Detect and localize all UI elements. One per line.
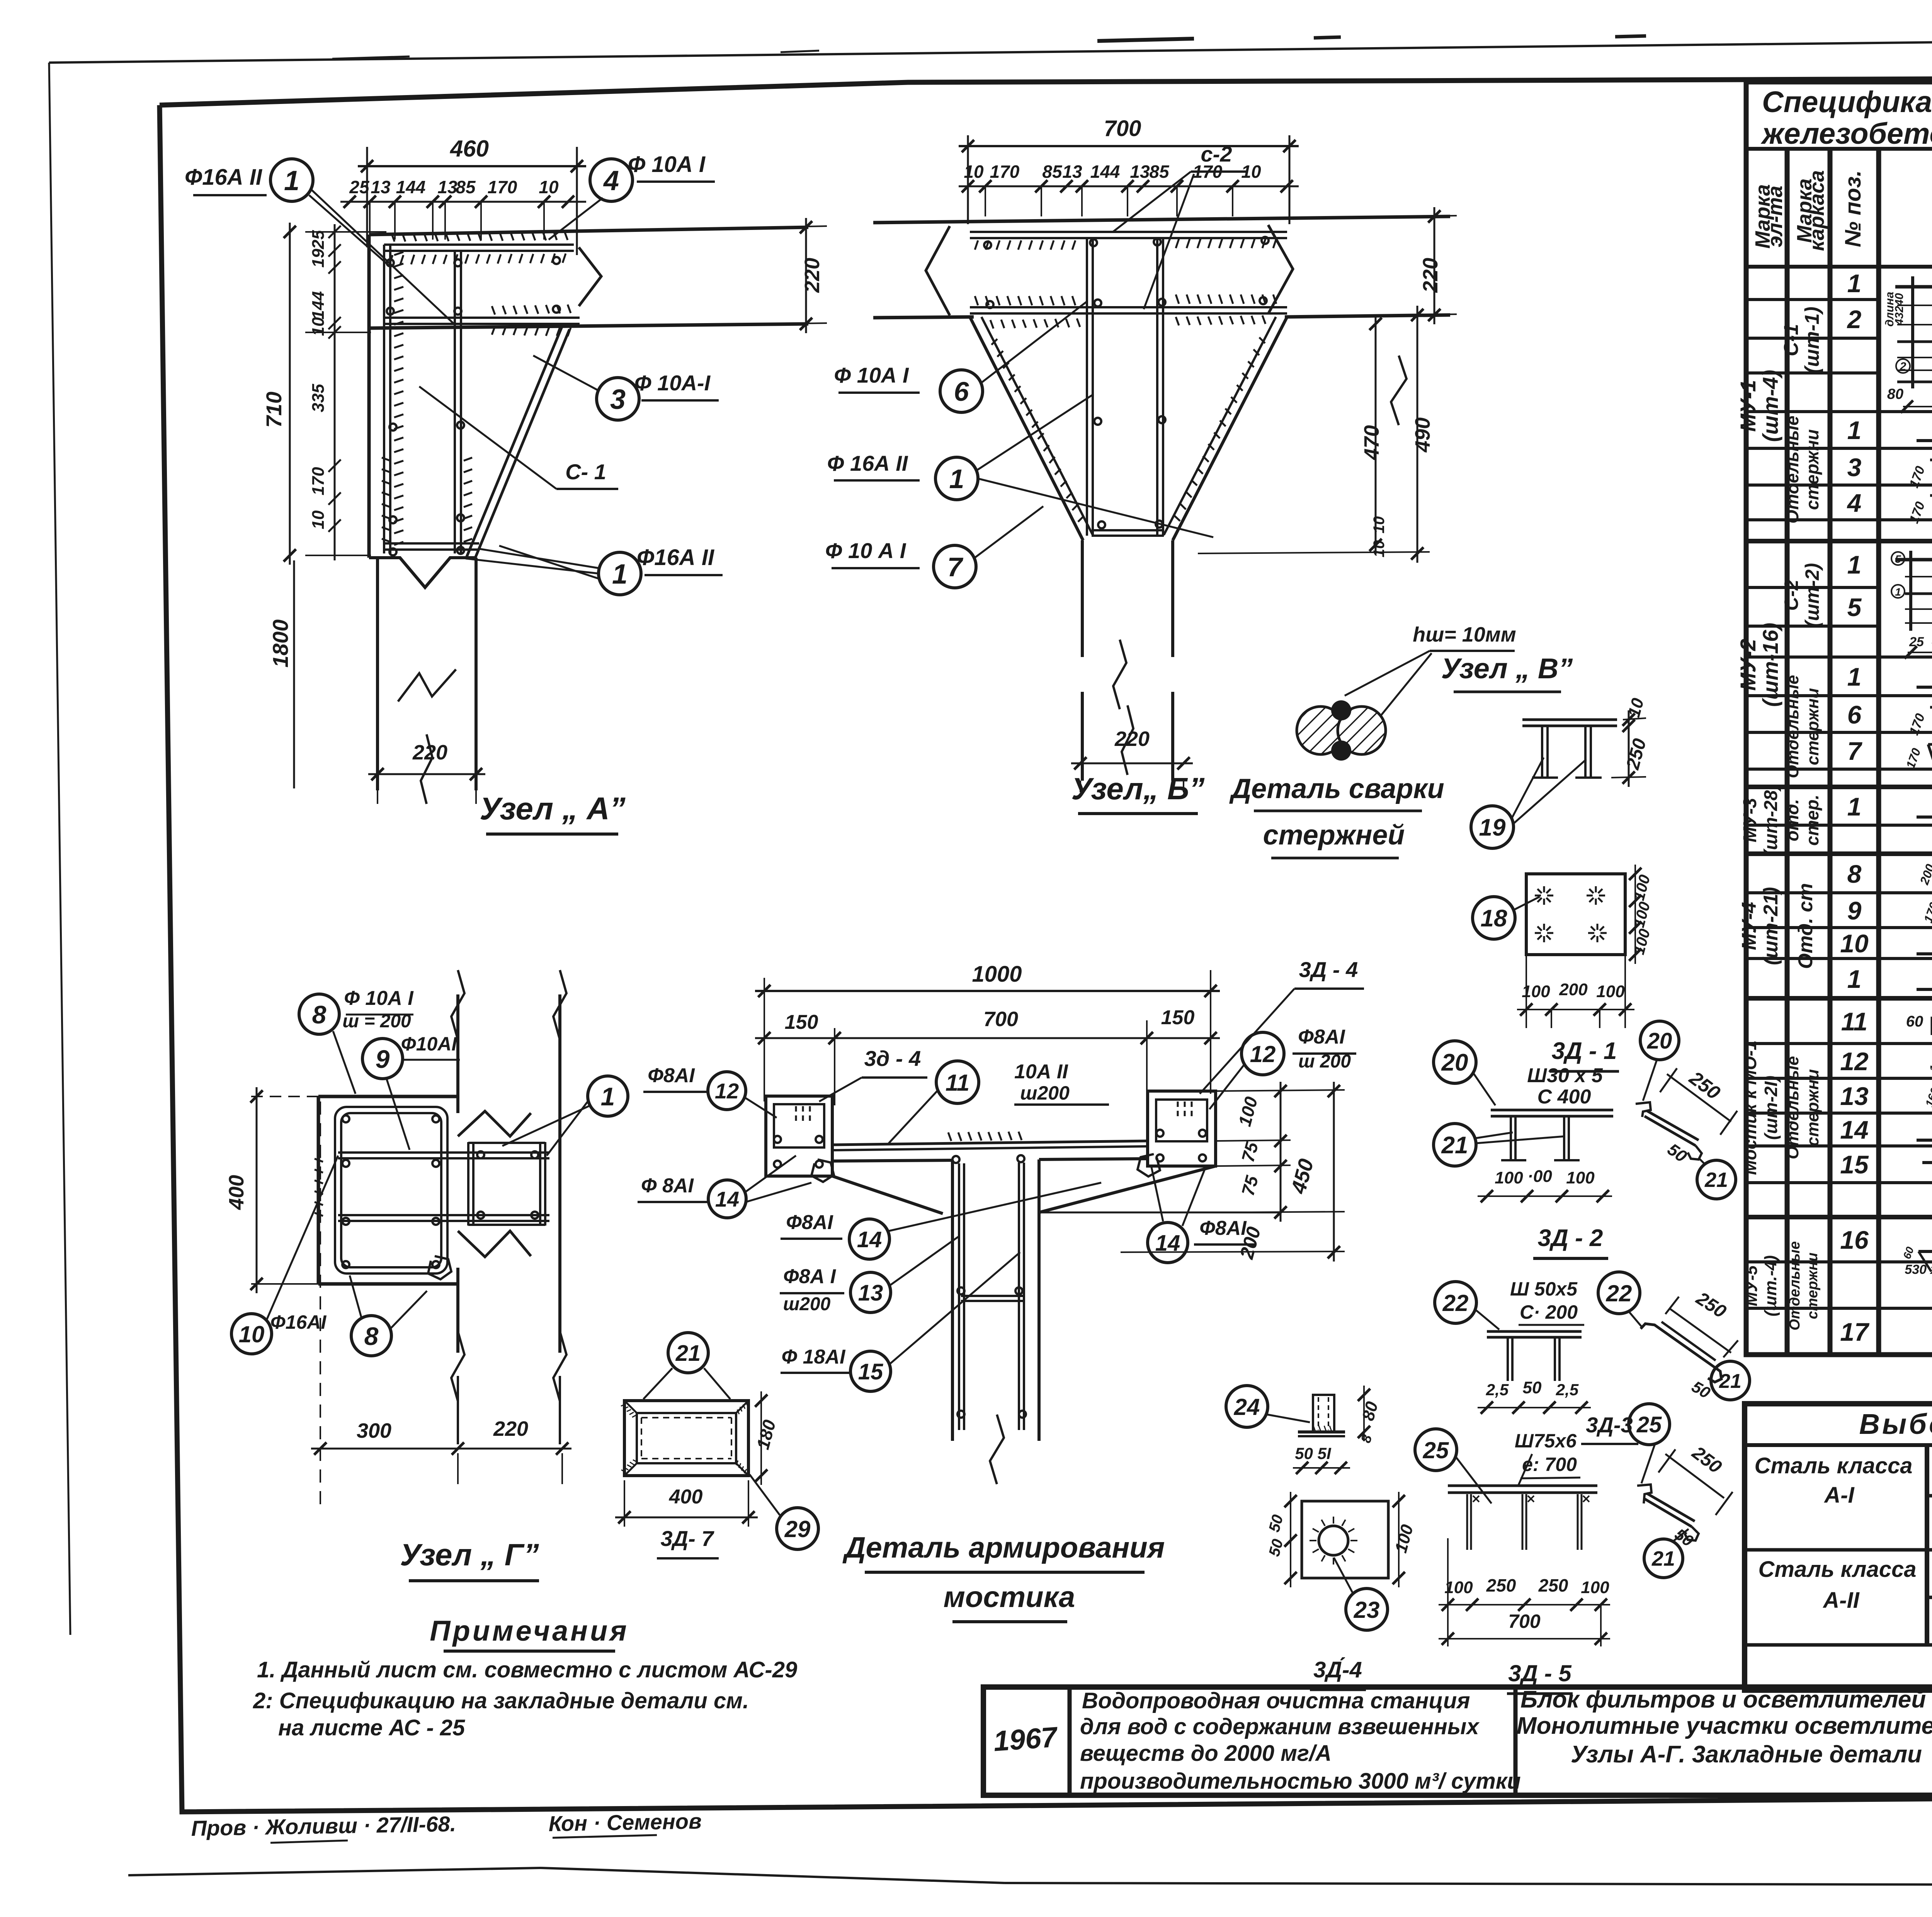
- svg-text:3Д-3: 3Д-3: [1586, 1413, 1633, 1437]
- svg-text:3Д - 1: 3Д - 1: [1552, 1038, 1617, 1064]
- svg-text:9: 9: [376, 1045, 390, 1073]
- svg-text:170: 170: [990, 162, 1020, 182]
- svg-text:Ф10АІ: Ф10АІ: [401, 1033, 457, 1055]
- svg-text:(шт.-4): (шт.-4): [1761, 1255, 1780, 1316]
- svg-text:6: 6: [1847, 700, 1862, 729]
- svg-text:1: 1: [949, 464, 964, 494]
- svg-text:3Д́-4: 3Д́-4: [1313, 1657, 1362, 1682]
- uzel V: T-bracket detail with callout 19: [1522, 718, 1617, 721]
- mostik detail: slab and web outline with rebar: [832, 1141, 1148, 1145]
- svg-text:Сталь класса: Сталь класса: [1758, 1557, 1916, 1582]
- svg-text:3д - 4: 3д - 4: [864, 1046, 921, 1071]
- svg-text:Ф16АІ: Ф16АІ: [270, 1311, 327, 1333]
- svg-text:19: 19: [309, 249, 328, 267]
- svg-text:85: 85: [1042, 162, 1063, 182]
- svg-text:700: 700: [1104, 116, 1141, 141]
- svg-text:10: 10: [1371, 540, 1388, 558]
- svg-text:470: 470: [1360, 425, 1383, 460]
- svg-text:железобетонный элемент.: железобетонный элемент.: [1760, 117, 1932, 150]
- svg-text:С-1: С-1: [1780, 324, 1803, 356]
- svg-text:1800: 1800: [268, 620, 293, 668]
- svg-text:21: 21: [1719, 1370, 1742, 1393]
- svg-text:2: Спецификацию на закла: 2: Спецификацию на закладные детали см.: [253, 1688, 749, 1713]
- svg-text:25: 25: [349, 177, 370, 197]
- svg-text:3Д- 7: 3Д- 7: [661, 1526, 715, 1551]
- svg-text:2,5: 2,5: [1556, 1381, 1579, 1399]
- svg-text:·00: ·00: [1527, 1167, 1552, 1186]
- svg-text:85: 85: [456, 177, 476, 197]
- svg-text:веществ до 2000 мг/А: веществ до 2000 мг/А: [1080, 1741, 1332, 1766]
- svg-text:80: 80: [1887, 386, 1903, 402]
- svg-text:2: 2: [1847, 305, 1862, 334]
- svg-text:13: 13: [1840, 1082, 1868, 1110]
- uzel B: bond hatching: [975, 240, 978, 250]
- svg-text:220: 220: [1419, 258, 1442, 293]
- svg-text:250: 250: [1486, 1575, 1516, 1595]
- uzel A: bond hatching: [389, 255, 393, 264]
- svg-text:25: 25: [1636, 1412, 1662, 1437]
- svg-text:hш= 10мм: hш= 10мм: [1413, 623, 1516, 646]
- svg-text:17: 17: [1840, 1318, 1870, 1346]
- svg-text:100: 100: [1581, 1578, 1609, 1597]
- uzel A: concrete outline and column: [369, 227, 808, 235]
- svg-text:Узлы А-Г. 3акладные дет: Узлы А-Г. 3акладные детали: [1571, 1741, 1922, 1768]
- svg-text:ш200: ш200: [783, 1294, 831, 1314]
- detail 22 right: bent hook bar: [1598, 1272, 1640, 1314]
- svg-text:5: 5: [1847, 593, 1862, 621]
- svg-text:9: 9: [1847, 896, 1862, 925]
- svg-text:100: 100: [1596, 982, 1625, 1001]
- svg-text:220: 220: [801, 258, 824, 293]
- svg-text:№ поз.: № поз.: [1840, 170, 1866, 247]
- svg-text:3Д - 5: 3Д - 5: [1508, 1660, 1572, 1686]
- svg-text:14: 14: [1840, 1115, 1868, 1144]
- svg-text:с-2: с-2: [1201, 142, 1232, 166]
- svg-text:Ф8АІ: Ф8АІ: [1298, 1026, 1345, 1048]
- svg-text:8: 8: [1847, 860, 1862, 888]
- bottom summary table (Выборка арматуры на лист) grid: [1745, 1404, 1932, 1690]
- svg-text:МУ-3: МУ-3: [1740, 798, 1760, 842]
- uzel B: rebar bars: [970, 231, 1287, 233]
- svg-text:144: 144: [1090, 162, 1120, 182]
- mostik detail: embedded parts ZD-4 blocks: [766, 1096, 832, 1176]
- svg-text:50: 50: [1523, 1378, 1542, 1397]
- svg-text:Ф8АІ: Ф8АІ: [1199, 1217, 1247, 1239]
- specification table grid (left part): [1746, 82, 1932, 1355]
- uzel B: transverse bar dots: [984, 242, 991, 249]
- svg-text:13: 13: [437, 177, 457, 197]
- svg-text:Ф 18АІ: Ф 18АІ: [782, 1346, 846, 1368]
- svg-text:10: 10: [309, 317, 328, 336]
- detail 22: channel bracket L50x5 e=200: [1435, 1282, 1476, 1323]
- svg-text:29: 29: [784, 1516, 811, 1542]
- svg-text:1: 1: [612, 559, 628, 590]
- svg-text:14: 14: [715, 1187, 739, 1211]
- svg-text:21: 21: [675, 1341, 701, 1366]
- svg-text:710: 710: [262, 392, 286, 427]
- svg-text:Кон · Семенов: Кон · Семенов: [548, 1809, 702, 1836]
- svg-text:144: 144: [396, 177, 426, 197]
- svg-text:МУ-1: МУ-1: [1736, 380, 1760, 432]
- svg-text:Отдельные: Отдельные: [1783, 675, 1802, 778]
- svg-text:14: 14: [857, 1227, 882, 1252]
- svg-text:700: 700: [1508, 1611, 1541, 1632]
- svg-text:МУ-5: МУ-5: [1742, 1265, 1761, 1306]
- svg-text:3Д - 2: 3Д - 2: [1538, 1225, 1603, 1251]
- svg-text:1: 1: [1847, 416, 1862, 444]
- svg-text:1967: 1967: [992, 1721, 1060, 1757]
- svg-text:400: 400: [225, 1175, 248, 1210]
- svg-text:эл-та: эл-та: [1764, 186, 1787, 247]
- svg-text:Водопроводная очистна станция: Водопроводная очистна станция: [1082, 1688, 1470, 1713]
- svg-text:Ф16А ІІ: Ф16А ІІ: [185, 165, 263, 190]
- svg-text:А-I: А-I: [1823, 1483, 1855, 1508]
- svg-text:10: 10: [309, 510, 328, 529]
- svg-text:60: 60: [1906, 1013, 1923, 1030]
- svg-text:ш200: ш200: [1020, 1082, 1070, 1104]
- svg-text:18: 18: [1481, 905, 1507, 932]
- mostik detail: bar dots: [952, 1156, 959, 1163]
- svg-text:Узел „ А”: Узел „ А”: [480, 791, 626, 826]
- svg-text:300: 300: [357, 1419, 391, 1442]
- svg-text:стержней: стержней: [1263, 820, 1405, 851]
- svg-text:13: 13: [1062, 162, 1082, 182]
- svg-text:Мостик к МО-1: Мостик к МО-1: [1740, 1040, 1760, 1175]
- svg-text:16: 16: [1840, 1226, 1869, 1254]
- svg-text:Ш30 х 5: Ш30 х 5: [1527, 1064, 1603, 1087]
- svg-text:С· 200: С· 200: [1520, 1301, 1578, 1323]
- svg-text:10: 10: [239, 1321, 265, 1347]
- svg-text:Узел „ Г”: Узел „ Г”: [400, 1537, 539, 1572]
- svg-text:1000: 1000: [972, 962, 1022, 987]
- svg-text:Блок фильтров и осветлителе: Блок фильтров и осветлителей: [1520, 1686, 1926, 1713]
- svg-text:Ш75х6: Ш75х6: [1515, 1430, 1577, 1452]
- svg-text:Ш 50х5: Ш 50х5: [1510, 1278, 1578, 1300]
- svg-text:Ф 10А І: Ф 10А І: [628, 152, 706, 177]
- svg-text:23: 23: [1354, 1597, 1380, 1623]
- detail 25: third bent hook bar with callout 21: [1629, 1404, 1670, 1445]
- svg-text:Ф8АІ: Ф8АІ: [648, 1064, 695, 1087]
- svg-text:2: 2: [1900, 360, 1906, 373]
- svg-text:150: 150: [1161, 1006, 1195, 1029]
- svg-text:3: 3: [610, 384, 626, 415]
- uzel G: bar dots: [342, 1115, 349, 1122]
- svg-text:(шт-16): (шт-16): [1758, 623, 1782, 707]
- svg-text:Отдельные: Отдельные: [1783, 1056, 1802, 1159]
- svg-text:10: 10: [964, 162, 984, 182]
- svg-text:43240: 43240: [1893, 293, 1906, 326]
- svg-text:стержни: стержни: [1803, 1069, 1822, 1146]
- svg-text:22: 22: [1606, 1280, 1632, 1306]
- uzel A: rebar cage bars: [384, 243, 574, 246]
- svg-text:1: 1: [601, 1082, 615, 1111]
- uzel A: left dimension chain 710/335/170/1800: [289, 228, 291, 560]
- svg-text:6: 6: [954, 376, 969, 407]
- svg-text:100: 100: [1495, 1168, 1523, 1187]
- svg-text:для вод с содержаним взвеш: для вод с содержаним взвешенных: [1080, 1714, 1480, 1739]
- eskiz: C-1 and C-2 welded mesh sketches: [1895, 285, 1932, 289]
- svg-text:10: 10: [1840, 929, 1869, 958]
- svg-text:Узел„ Б”: Узел„ Б”: [1071, 771, 1205, 806]
- svg-text:1: 1: [1847, 550, 1862, 579]
- svg-text:530 х/330: 530 х/330: [1905, 1262, 1932, 1277]
- svg-text:10: 10: [539, 177, 559, 197]
- svg-text:2,5: 2,5: [1486, 1381, 1509, 1399]
- svg-text:Ф 8АІ: Ф 8АІ: [641, 1175, 694, 1197]
- svg-text:220: 220: [493, 1417, 528, 1440]
- svg-text:20: 20: [1647, 1028, 1672, 1054]
- svg-text:3Д - 4: 3Д - 4: [1299, 957, 1358, 982]
- svg-text:отд.: отд.: [1782, 799, 1802, 841]
- svg-text:5: 5: [1895, 553, 1901, 565]
- svg-text:Отд. ст: Отд. ст: [1794, 883, 1817, 969]
- svg-text:(шт-2): (шт-2): [1801, 563, 1823, 628]
- svg-text:(шт-2І): (шт-2І): [1761, 1076, 1781, 1140]
- svg-text:12: 12: [1250, 1041, 1276, 1067]
- svg-text:Узел „ В”: Узел „ В”: [1441, 652, 1573, 684]
- svg-text:14: 14: [1155, 1231, 1180, 1256]
- svg-text:19: 19: [1479, 814, 1506, 841]
- svg-text:А-ІІ: А-ІІ: [1822, 1588, 1860, 1613]
- svg-text:ш 200: ш 200: [1298, 1051, 1351, 1072]
- svg-text:производительностью 3000 м³/: производительностью 3000 м³/ сутки: [1080, 1769, 1521, 1794]
- svg-text:10: 10: [1371, 516, 1388, 534]
- svg-text:150: 150: [785, 1011, 818, 1033]
- svg-text:Примечания: Примечания: [430, 1615, 629, 1647]
- svg-text:7: 7: [947, 552, 964, 582]
- svg-text:24: 24: [1234, 1394, 1260, 1420]
- svg-text:4: 4: [603, 165, 619, 196]
- svg-text:11: 11: [1841, 1007, 1868, 1036]
- svg-text:13: 13: [858, 1280, 883, 1306]
- callout 25 left: [1415, 1429, 1457, 1471]
- embed plate detail 18 with weld marks: [1526, 874, 1625, 955]
- svg-text:460: 460: [450, 136, 489, 162]
- outer sheet frame (thin scanned border): [49, 34, 1932, 63]
- svg-text:(шт-28): (шт-28): [1761, 784, 1781, 856]
- svg-text:4: 4: [1847, 489, 1862, 517]
- svg-text:С- 1: С- 1: [565, 460, 606, 484]
- svg-text:каркаса: каркаса: [1805, 170, 1828, 251]
- svg-text:Выборка арматуры на лист: Выборка арматуры на лист: [1859, 1408, 1932, 1440]
- detail ZD-7: frame embed with callouts 21,29: [624, 1401, 748, 1476]
- detail 24: welded stud channel: [1226, 1386, 1268, 1427]
- svg-text:21: 21: [1651, 1547, 1675, 1570]
- svg-text:Спецификация арматуры на од: Спецификация арматуры на один: [1762, 85, 1932, 119]
- uzel B: callouts 6,1,7: [940, 370, 983, 412]
- svg-text:700: 700: [983, 1008, 1018, 1031]
- svg-text:22: 22: [1442, 1290, 1469, 1316]
- svg-text:25: 25: [1423, 1437, 1449, 1463]
- svg-text:50 5І: 50 5І: [1295, 1444, 1332, 1462]
- svg-text:10А ІІ: 10А ІІ: [1014, 1061, 1068, 1083]
- svg-text:Пров · Жоливш · 27/ІІ-68.: Пров · Жоливш · 27/ІІ-68.: [191, 1811, 456, 1840]
- svg-text:1. Данный лист см. совм: 1. Данный лист см. совместно с листом АС…: [257, 1657, 797, 1682]
- svg-text:Ф 10А-І: Ф 10А-І: [634, 371, 711, 395]
- svg-text:335: 335: [309, 384, 328, 412]
- svg-text:21: 21: [1441, 1132, 1468, 1159]
- svg-text:3: 3: [1847, 453, 1862, 482]
- svg-text:(шт-1): (шт-1): [1801, 306, 1823, 373]
- svg-text:1: 1: [1895, 586, 1901, 598]
- svg-text:Сталь класса: Сталь класса: [1754, 1453, 1912, 1478]
- svg-text:стержни: стержни: [1803, 688, 1822, 765]
- svg-text:13: 13: [1130, 162, 1150, 182]
- svg-text:1: 1: [1847, 662, 1862, 691]
- svg-text:250: 250: [1538, 1575, 1568, 1595]
- svg-text:15: 15: [1840, 1150, 1869, 1179]
- svg-text:100: 100: [1566, 1168, 1595, 1187]
- title block frame: [983, 1687, 1932, 1795]
- svg-text:Ф16А ІІ: Ф16А ІІ: [637, 545, 715, 570]
- uzel B: concrete outline funnel and column: [873, 216, 1450, 223]
- svg-text:(шт-4): (шт-4): [1758, 370, 1782, 442]
- svg-text:1: 1: [1847, 792, 1862, 821]
- svg-text:Ф8А І: Ф8А І: [783, 1265, 837, 1288]
- svg-text:С-2: С-2: [1781, 580, 1802, 611]
- svg-text:7: 7: [1847, 737, 1863, 765]
- svg-text:мостика: мостика: [944, 1581, 1075, 1614]
- svg-text:13: 13: [371, 177, 391, 197]
- svg-text:МУ-2: МУ-2: [1736, 639, 1760, 691]
- svg-text:12: 12: [715, 1079, 739, 1103]
- svg-text:100: 100: [1444, 1578, 1473, 1597]
- svg-text:490: 490: [1411, 417, 1434, 453]
- uzel A: transverse bar section dots: [387, 259, 394, 266]
- uzel G: rebar cage: [335, 1107, 447, 1273]
- scan smudges on top edge: [1097, 39, 1194, 41]
- svg-text:21: 21: [1704, 1168, 1728, 1192]
- svg-text:на листе АС - 25: на листе АС - 25: [278, 1715, 465, 1740]
- uzel G: wall outline and column: [318, 1095, 458, 1098]
- svg-text:144: 144: [309, 291, 328, 319]
- svg-text:1: 1: [1847, 269, 1862, 298]
- svg-text:12: 12: [1840, 1047, 1869, 1076]
- svg-text:15: 15: [858, 1359, 883, 1384]
- detail ZD-2 bent hook bar with callouts 20,21 (right): [1640, 1021, 1679, 1060]
- svg-text:стер.: стер.: [1802, 795, 1822, 846]
- svg-text:Ф 10А І: Ф 10А І: [344, 987, 414, 1010]
- svg-text:Ф 16А ІІ: Ф 16А ІІ: [827, 451, 908, 475]
- svg-text:Ф 10А І: Ф 10А І: [834, 363, 909, 387]
- svg-text:Монолитные участки осветли: Монолитные участки осветлителей: [1517, 1713, 1932, 1739]
- svg-text:С 400: С 400: [1537, 1086, 1591, 1108]
- uzel G: callouts 8,9,1,10,8: [299, 994, 339, 1034]
- svg-text:МУ-4: МУ-4: [1738, 902, 1760, 950]
- svg-text:1: 1: [1847, 965, 1862, 993]
- svg-text:Отдельные: Отдельные: [1787, 1241, 1803, 1331]
- svg-text:20: 20: [1441, 1049, 1468, 1076]
- svg-text:400: 400: [669, 1486, 703, 1508]
- svg-text:170: 170: [309, 467, 328, 495]
- svg-text:170: 170: [488, 177, 517, 197]
- svg-text:Ф8АІ: Ф8АІ: [786, 1211, 833, 1234]
- svg-text:25: 25: [309, 230, 328, 249]
- svg-text:1: 1: [284, 165, 299, 196]
- svg-text:11: 11: [946, 1070, 969, 1096]
- svg-text:Деталь сварки: Деталь сварки: [1229, 773, 1444, 804]
- detail 23: washer plate ZD-4: [1302, 1501, 1388, 1578]
- svg-text:Ф 10 А І: Ф 10 А І: [825, 538, 906, 563]
- svg-text:85: 85: [1149, 162, 1170, 182]
- svg-text:стержни: стержни: [1802, 429, 1822, 510]
- svg-text:стержни: стержни: [1804, 1253, 1821, 1319]
- svg-text:Отдельные: Отдельные: [1782, 415, 1802, 523]
- uzel A: beam break and 220 dim: [579, 247, 601, 306]
- svg-text:ш = 200: ш = 200: [342, 1011, 411, 1032]
- svg-text:8: 8: [364, 1322, 379, 1350]
- svg-text:(шт-21): (шт-21): [1760, 887, 1782, 965]
- svg-text:Деталь армирования: Деталь армирования: [842, 1531, 1165, 1564]
- svg-text:200: 200: [1559, 980, 1588, 999]
- svg-text:8: 8: [312, 1000, 327, 1029]
